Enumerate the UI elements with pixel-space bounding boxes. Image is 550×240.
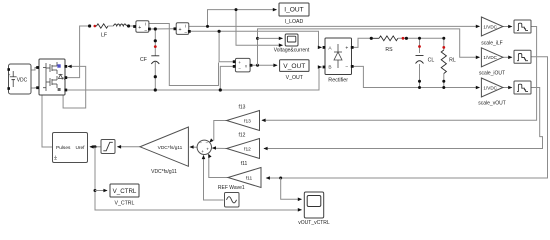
converter block (MOSFET half-bridge) [36,59,67,95]
svg-text:−: − [199,141,202,146]
wire scale_iLF to hold1 [503,25,513,29]
wire current-sensor1 signal down and across [149,24,219,86]
resistor RS [370,36,408,41]
svg-text:+: + [345,46,348,52]
svg-text:Rectifier: Rectifier [328,77,348,83]
label scale_iOUT [479,71,505,77]
label f12 [239,133,246,139]
subsystem Pulses [53,133,88,163]
goto block I_OUT [279,3,309,16]
label f13 [239,105,246,111]
svg-text:V_CTRL: V_CTRL [113,188,137,195]
svg-text:−: − [184,30,187,36]
resistor RL [441,46,446,74]
svg-text:vOUT_vCTRL: vOUT_vCTRL [298,220,330,226]
wire rectifier - to load bottom rail to scale_vOUT [352,66,480,89]
wire f11 to sum [207,153,228,178]
capacitor CL [416,45,424,63]
gain scale_iLF [481,17,503,36]
wire converter A port up to LF line [66,26,90,78]
svg-text:I_LOAD: I_LOAD [285,19,304,25]
gain f12 [227,139,260,159]
svg-text:V_OUT: V_OUT [286,75,304,81]
wire current-sensor2 to rectifier A [189,31,322,49]
wire V_OUT signal riser and long line to scale_iOUT [256,29,480,65]
gain VDC*fs/g11 [140,127,188,166]
svg-text:I_OUT: I_OUT [284,7,303,14]
svg-text:f12: f12 [239,133,246,139]
svg-text:f13: f13 [239,105,246,111]
gain f13 [227,111,260,131]
wire voltage-sensor - tap from B rail [219,66,233,91]
wire converter S loop to D port [63,65,86,108]
svg-text:i: i [185,23,186,28]
svg-text:i: i [145,21,146,26]
svg-text:VDC*fs/g11: VDC*fs/g11 [151,169,177,175]
scope Voltage&current [285,34,298,46]
label VDC*fs/g11 [151,169,177,175]
svg-text:LF: LF [101,33,107,39]
svg-text:+: + [201,149,204,154]
svg-text:−: − [238,66,241,71]
wire VDC*fs/g11 to saturation [117,145,140,149]
svg-text:Pulses: Pulses [56,145,71,151]
source REF Wave1 [225,193,240,208]
svg-text:REF Wave1: REF Wave1 [218,185,245,191]
gain scale_iOUT [481,48,503,67]
svg-text:VDC*fs/g11: VDC*fs/g11 [158,145,183,151]
wire RS rail [398,37,444,39]
label CF [140,57,147,63]
label RS [385,47,393,53]
wire converter B rail to rectifier B [66,65,322,90]
wire hold1 output to f13 [261,27,536,123]
svg-text:VDC: VDC [17,78,28,84]
svg-text:scale_iOUT: scale_iOUT [479,71,505,77]
svg-text:CL: CL [428,58,435,64]
label scale_iLF [481,41,502,47]
svg-text:Uref: Uref [75,145,85,151]
svg-text:−: − [144,28,147,34]
gain f11 [228,168,261,188]
capacitor branch CF [151,27,159,91]
svg-text:RL: RL [449,58,456,64]
goto block V_OUT [280,60,309,72]
svg-text:scale_iLF: scale_iLF [481,41,502,47]
label REF Wave1 [218,185,245,191]
sum junction [197,140,211,154]
wire f11 line branch to vOUT_vCTRL scope input1 [281,178,302,201]
wire V_OUT branch to scope input 1 [258,37,284,41]
svg-text:+: + [206,147,209,152]
wire I_LOAD branch down to scope input 2 [235,8,284,47]
svg-text:−: − [345,65,348,71]
label scale_vOUT [478,101,506,107]
svg-text:1/VDC: 1/VDC [483,85,497,90]
wire current-sensor1 to CF node to current-sensor2 [150,28,175,30]
svg-text:B: B [328,65,331,71]
current sensor 1 (iLF) [133,21,151,34]
wire V_CTRL tap down to goto and scope input2 [94,147,303,212]
wire junction up to I_OUT goto [206,8,277,28]
svg-text:RS: RS [385,47,393,53]
wire LF branch line [129,25,135,27]
svg-text:A: A [62,76,65,81]
svg-text:1/VDC: 1/VDC [483,24,497,29]
inductor branch LF [88,24,130,28]
wire voltage-sensor output to V_OUT goto [251,64,278,68]
label RL [449,58,456,64]
svg-text:Voltage&current: Voltage&current [274,48,310,54]
gain scale_vOUT [481,78,503,97]
wire RL column [442,37,445,89]
wire sum to VDC*fs/g11 gain [189,145,197,149]
wire f13 to sum [208,121,227,144]
svg-text:f12: f12 [244,147,251,153]
label vOUT_vCTRL [298,220,330,226]
hold block 1 [514,20,531,33]
wire current-sensor2 signal to scale_iLF [189,25,480,29]
wire f12 to sum [212,146,227,150]
svg-text:−: − [205,141,208,146]
svg-text:+: + [138,25,141,31]
label CL [428,58,435,64]
svg-text:+: + [238,60,241,65]
wire VDC+ to converter left port [31,68,37,71]
scope vOUT_vCTRL [304,192,323,218]
label LF [101,33,107,39]
svg-text:f11: f11 [246,176,253,182]
svg-text:1/VDC: 1/VDC [483,55,497,60]
svg-text:f11: f11 [241,161,248,167]
svg-text:CF: CF [140,57,147,63]
wire rectifier + to RS rail [352,38,370,47]
hold block 2 [514,50,531,63]
wire REF Wave1 to sum [202,155,224,200]
hold block 3 [514,81,531,94]
label Voltage&current [274,48,310,54]
wire scale_iOUT to hold2 [503,56,513,60]
DC voltage source VDC [7,64,31,94]
wire scale_vOUT to hold3 [503,86,513,90]
label V_CTRL [115,201,135,207]
wire CL column [418,37,421,89]
svg-text:V_CTRL: V_CTRL [115,201,135,207]
label f11 [241,161,248,167]
wire voltage-sensor + tap [218,30,234,62]
wire Pulses output to converter gate [42,96,53,148]
voltage sensor (vOUT) [233,58,253,72]
rectifier block [323,38,354,75]
wire hold2 output to f11 and scope [266,57,548,180]
svg-text:scale_vOUT: scale_vOUT [478,101,506,107]
wire VDC- to converter lower-left port [31,87,37,89]
label V_OUT [286,75,304,81]
svg-text:f13: f13 [244,119,251,125]
label I_LOAD [285,19,304,25]
wire saturation to Pulses Uref [89,145,101,149]
wire hold3 output to f12 [263,88,542,151]
goto block V_CTRL [110,184,139,197]
label Rectifier [328,77,348,83]
current sensor 2 (iOUT) [174,23,191,36]
svg-text:V_OUT: V_OUT [283,63,305,70]
svg-text:+: + [178,27,181,33]
saturation block [101,140,115,154]
